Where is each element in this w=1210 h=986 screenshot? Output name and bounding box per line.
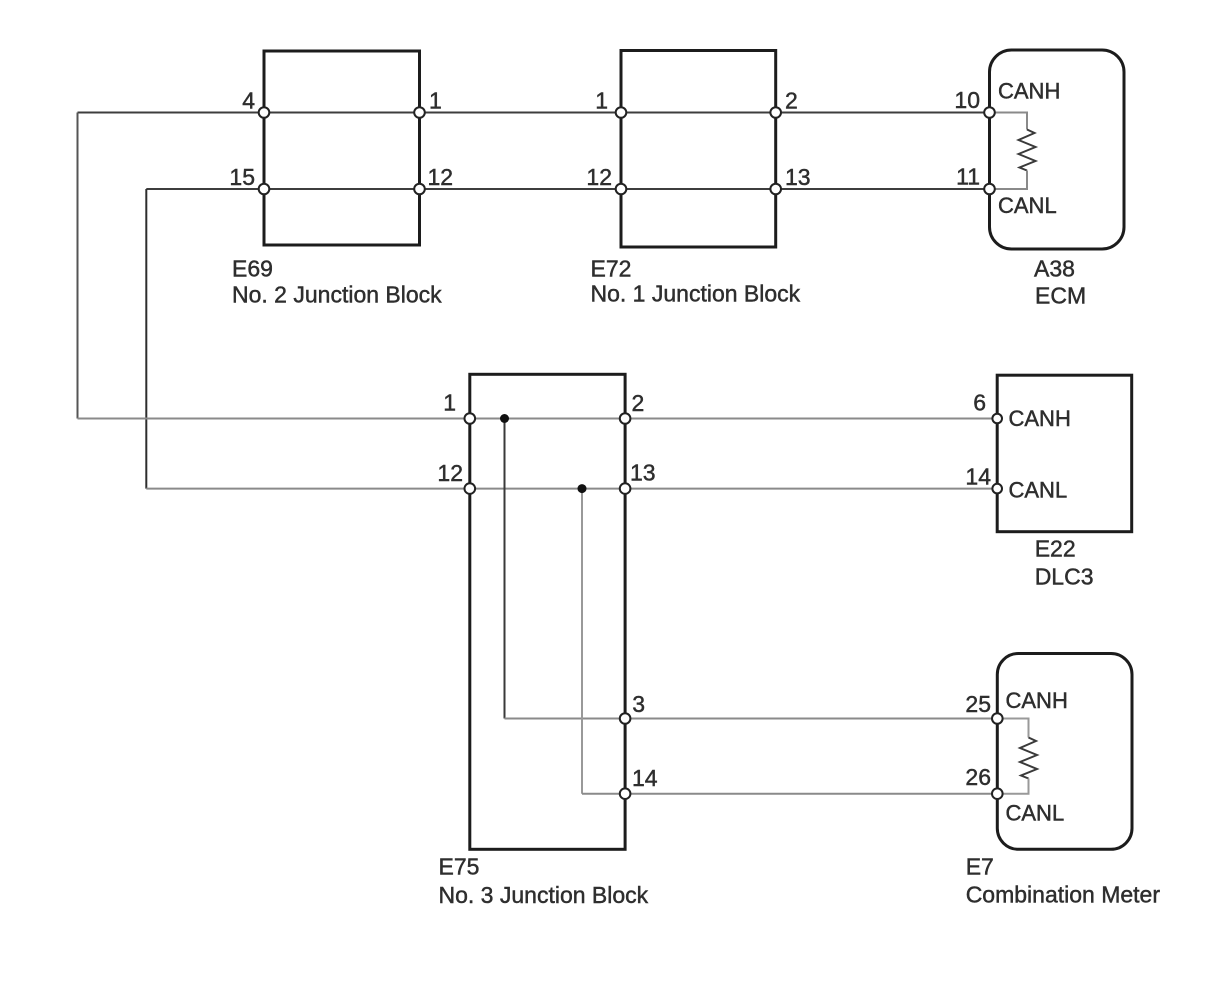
svg-text:CANH: CANH	[1009, 406, 1071, 431]
svg-text:6: 6	[973, 390, 986, 416]
svg-text:CANL: CANL	[1009, 478, 1068, 503]
label E75 No. 3 Junction Block	[439, 853, 649, 908]
terminating resistor inside ECM between pin10 and pin11	[990, 113, 1036, 190]
pin 26 of Combination Meter	[965, 764, 1002, 799]
svg-text:1: 1	[595, 88, 608, 114]
wire CANH mid bus: drop1 to E75 pin1/pin2 to DLC3 pin6	[78, 418, 998, 420]
pin 12 of E72	[586, 164, 626, 194]
wire left drop 2: E69 pin15 down to E75 pin12 row	[145, 189, 147, 489]
pin 15 of E69	[229, 164, 269, 194]
pin 13 of E75	[620, 460, 656, 494]
junction dot B on E75 pin12 row	[578, 484, 587, 493]
junction dot A on E75 pin1 row	[500, 414, 509, 423]
connector block E75 (No. 3 Junction Block)	[470, 374, 625, 849]
pin 6 of DLC3	[973, 390, 1002, 424]
wire CANL top bus: E69 pin15 through E72 to ECM pin11	[146, 188, 989, 190]
svg-text:11: 11	[956, 164, 980, 190]
svg-text:26: 26	[965, 764, 991, 790]
svg-text:E72: E72	[591, 255, 632, 281]
svg-text:CANH: CANH	[998, 79, 1060, 104]
svg-text:E7: E7	[966, 854, 994, 880]
svg-text:CANL: CANL	[1006, 801, 1065, 826]
pin 11 of ECM	[956, 164, 995, 195]
label A38 ECM	[1034, 255, 1086, 308]
svg-text:12: 12	[437, 460, 463, 486]
connector block E22 (DLC3)	[997, 375, 1131, 532]
pin 14 of E75	[620, 765, 658, 799]
svg-text:25: 25	[965, 691, 991, 717]
svg-text:4: 4	[242, 88, 255, 114]
label E7 Combination Meter	[966, 854, 1161, 908]
label E72 No. 1 Junction Block	[591, 255, 801, 306]
label E69 No. 2 Junction Block	[232, 255, 442, 307]
svg-text:ECM: ECM	[1035, 283, 1086, 309]
svg-text:14: 14	[965, 464, 991, 490]
svg-text:12: 12	[428, 164, 454, 190]
svg-text:E22: E22	[1035, 536, 1076, 562]
pin 10 of ECM	[954, 87, 994, 118]
wire branch A: junction on pin1 row down to E75 pin3	[505, 419, 626, 719]
svg-text:13: 13	[785, 164, 811, 190]
pin 1 of E72	[595, 88, 626, 118]
connector block E7 (Combination Meter)	[997, 654, 1132, 850]
connector block E72 (No. 1 Junction Block)	[621, 51, 776, 248]
pin 13 of E72	[770, 164, 810, 194]
svg-text:DLC3: DLC3	[1035, 563, 1094, 589]
connector block E69 (No. 2 Junction Block)	[264, 51, 420, 245]
wire branch B: junction on pin12 row down to E75 pin14	[582, 489, 625, 794]
svg-text:15: 15	[229, 164, 255, 190]
label E22 DLC3	[1035, 536, 1094, 590]
pin 25 of Combination Meter	[965, 691, 1002, 724]
terminating resistor inside Combination Meter between pin25 and pin26	[997, 719, 1037, 794]
svg-text:1: 1	[429, 88, 442, 114]
svg-text:E75: E75	[439, 853, 480, 879]
pin 1 of E69	[414, 88, 442, 118]
svg-text:Combination Meter: Combination Meter	[966, 881, 1161, 907]
svg-text:No. 1 Junction Block: No. 1 Junction Block	[591, 281, 801, 307]
pin 1 of E75	[443, 390, 475, 424]
wire CANH top bus: E69 pin4 through E72 to ECM pin10	[78, 112, 990, 114]
svg-text:13: 13	[630, 460, 656, 486]
wire CANL mid bus: drop2 to E75 pin12/pin13 to DLC3 pin14	[146, 488, 997, 490]
wire left drop 1: E69 pin4 down to E75 pin1 row	[77, 113, 79, 419]
svg-text:CANH: CANH	[1006, 688, 1068, 713]
svg-text:E69: E69	[232, 255, 273, 281]
pin 2 of E72	[770, 88, 797, 118]
pin 14 of DLC3	[965, 464, 1002, 494]
svg-text:2: 2	[785, 88, 798, 114]
svg-text:A38: A38	[1034, 255, 1075, 281]
pin 3 of E75	[620, 691, 645, 724]
wire CANH bottom: E75 pin3 to Combination Meter pin25	[625, 718, 997, 720]
svg-text:10: 10	[954, 87, 980, 113]
svg-text:12: 12	[586, 164, 612, 190]
connector block A38 (ECM)	[990, 50, 1125, 249]
svg-text:14: 14	[632, 765, 658, 791]
wire CANL bottom: E75 pin14 to Combination Meter pin26	[625, 793, 997, 795]
svg-text:3: 3	[632, 691, 645, 717]
svg-text:CANL: CANL	[998, 193, 1057, 218]
pin 12 of E75	[437, 460, 475, 494]
svg-text:No. 2 Junction Block: No. 2 Junction Block	[232, 281, 442, 307]
pin 2 of E75	[620, 390, 644, 424]
pin 12 of E69	[414, 164, 453, 194]
svg-text:2: 2	[632, 390, 645, 416]
svg-text:No. 3 Junction Block: No. 3 Junction Block	[439, 882, 649, 908]
pin 4 of E69	[242, 88, 269, 118]
svg-text:1: 1	[443, 390, 456, 416]
